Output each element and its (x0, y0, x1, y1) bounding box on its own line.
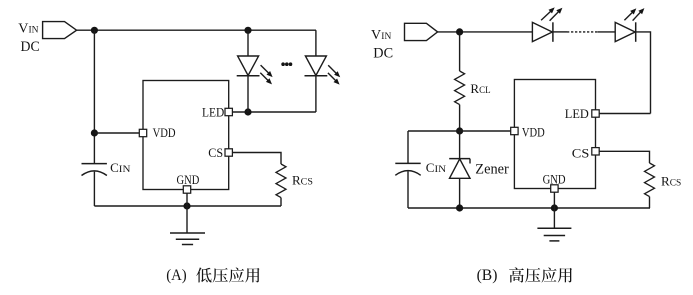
resistor RCS (B) (645, 163, 655, 197)
wire CS pin to RCS B (599, 151, 649, 163)
svg-text:R: R (661, 174, 670, 189)
label RCS (A) (292, 173, 313, 188)
led D1 arrow2 A (260, 73, 272, 85)
svg-text:CS: CS (670, 178, 682, 189)
wire left vertical VIN to CIN A (93, 30, 95, 163)
junction LED1 anode A (244, 27, 251, 34)
svg-text:CS: CS (208, 145, 223, 160)
wire GND pin to rail A (186, 193, 188, 206)
wire bottom rail B (408, 207, 650, 209)
junction VDD node B (456, 127, 463, 134)
svg-text:LED: LED (565, 106, 589, 121)
led D3 arrows B (541, 7, 555, 20)
junction gnd rail B (551, 204, 558, 211)
junction VDD branch A (91, 129, 98, 136)
svg-text:CL: CL (479, 85, 491, 96)
op IC U1 box A (143, 81, 229, 190)
led D2 (A) (305, 56, 328, 112)
wire CS pin to RCS A (232, 153, 281, 165)
wire LED pin to LEDs A (232, 111, 316, 113)
caption A chinese 低压应用 (196, 267, 259, 282)
svg-text:CS: CS (301, 177, 313, 188)
wire top rail A (77, 29, 316, 31)
svg-text:R: R (470, 81, 479, 96)
svg-text:Zener: Zener (475, 161, 509, 177)
pin VDD A (139, 129, 146, 136)
svg-text:(A): (A) (166, 267, 187, 284)
pin GND B (551, 185, 558, 192)
ground symbol B (537, 228, 571, 241)
zener diode ZD1 (B) (449, 131, 470, 208)
led D1 arrows A (261, 65, 273, 77)
led D1 (A) (237, 30, 260, 112)
svg-text:C: C (110, 160, 119, 175)
wire CIN top lead B (407, 131, 409, 163)
resistor RCS (A) (276, 164, 286, 198)
wire VDD row B (408, 130, 511, 132)
svg-text:DC: DC (373, 45, 393, 61)
pin CS A (225, 149, 232, 156)
pin LED A (225, 108, 232, 115)
capacitor CIN (A) (82, 164, 107, 176)
led D2 arrow2 A (328, 73, 340, 85)
svg-text:CS: CS (572, 146, 590, 161)
wire RCL to VDD node B (459, 105, 461, 131)
svg-text:GND: GND (543, 172, 566, 187)
caption B chinese 高压应用 (509, 267, 572, 282)
VIN input connector (B) (405, 23, 438, 40)
capacitor CIN (B) (395, 163, 420, 175)
wire VIN to LED D3 B (438, 31, 533, 33)
node VIN label (A) (18, 22, 38, 37)
svg-text:C: C (426, 160, 435, 175)
wire CIN to rail B (407, 171, 409, 208)
wire RCS to rail B (649, 197, 651, 208)
pin GND A (183, 186, 190, 193)
svg-text:(B): (B) (477, 267, 498, 284)
wire LED D4 to right edge B (636, 32, 651, 114)
ellipsis dots A (281, 62, 292, 66)
wire GND pin to ground B (553, 192, 555, 228)
label CIN (A) (110, 160, 130, 175)
node VIN label (B) (371, 28, 391, 43)
label RCS (B) (661, 174, 681, 189)
label CIN (B) (426, 160, 446, 175)
wire top-right drop to LED D2 A (315, 30, 317, 56)
svg-text:VDD: VDD (522, 124, 545, 139)
svg-text:IN: IN (435, 164, 447, 175)
ground symbol A (170, 233, 205, 245)
junction zener anode rail B (456, 204, 463, 211)
svg-text:IN: IN (119, 164, 131, 175)
wire to VDD pin A (94, 132, 139, 134)
VIN input connector (A) (43, 22, 77, 39)
pin VDD B (511, 127, 518, 134)
junction GND rail A (183, 202, 190, 209)
junction VIN node B (456, 28, 463, 35)
wire RCS to rail A (280, 198, 282, 206)
resistor RCL (B) (455, 71, 465, 105)
led D3 (B) (532, 22, 553, 42)
led D3 arrow2 B (550, 8, 563, 21)
pin LED B (592, 110, 599, 117)
wire CIN to bottom rail A (93, 172, 95, 206)
svg-text:DC: DC (21, 39, 40, 55)
junction VIN node A (91, 27, 98, 34)
led D2 arrows A (328, 65, 340, 77)
svg-text:V: V (371, 28, 381, 43)
wire LED pin wire B (599, 113, 650, 115)
svg-text:VDD: VDD (153, 125, 176, 140)
svg-text:IN: IN (29, 25, 39, 36)
led D4 (B) (615, 22, 636, 42)
svg-text:IN: IN (381, 31, 391, 42)
wire rail to ground symbol A (186, 206, 188, 233)
svg-text:GND: GND (177, 172, 200, 187)
svg-text:V: V (18, 22, 28, 37)
svg-text:R: R (292, 173, 301, 188)
wire VIN to RCL B (459, 32, 461, 71)
label RCL (B) (470, 81, 490, 96)
wire dashed LED string B (553, 31, 615, 33)
pin CS B (592, 148, 599, 155)
junction LED1 cathode A (244, 108, 251, 115)
svg-text:LED: LED (202, 105, 224, 120)
op IC U2 box B (514, 80, 595, 189)
led D4 arrows B (624, 8, 636, 20)
wire bottom rail A (94, 205, 281, 207)
led D4 arrow2 B (633, 8, 645, 21)
